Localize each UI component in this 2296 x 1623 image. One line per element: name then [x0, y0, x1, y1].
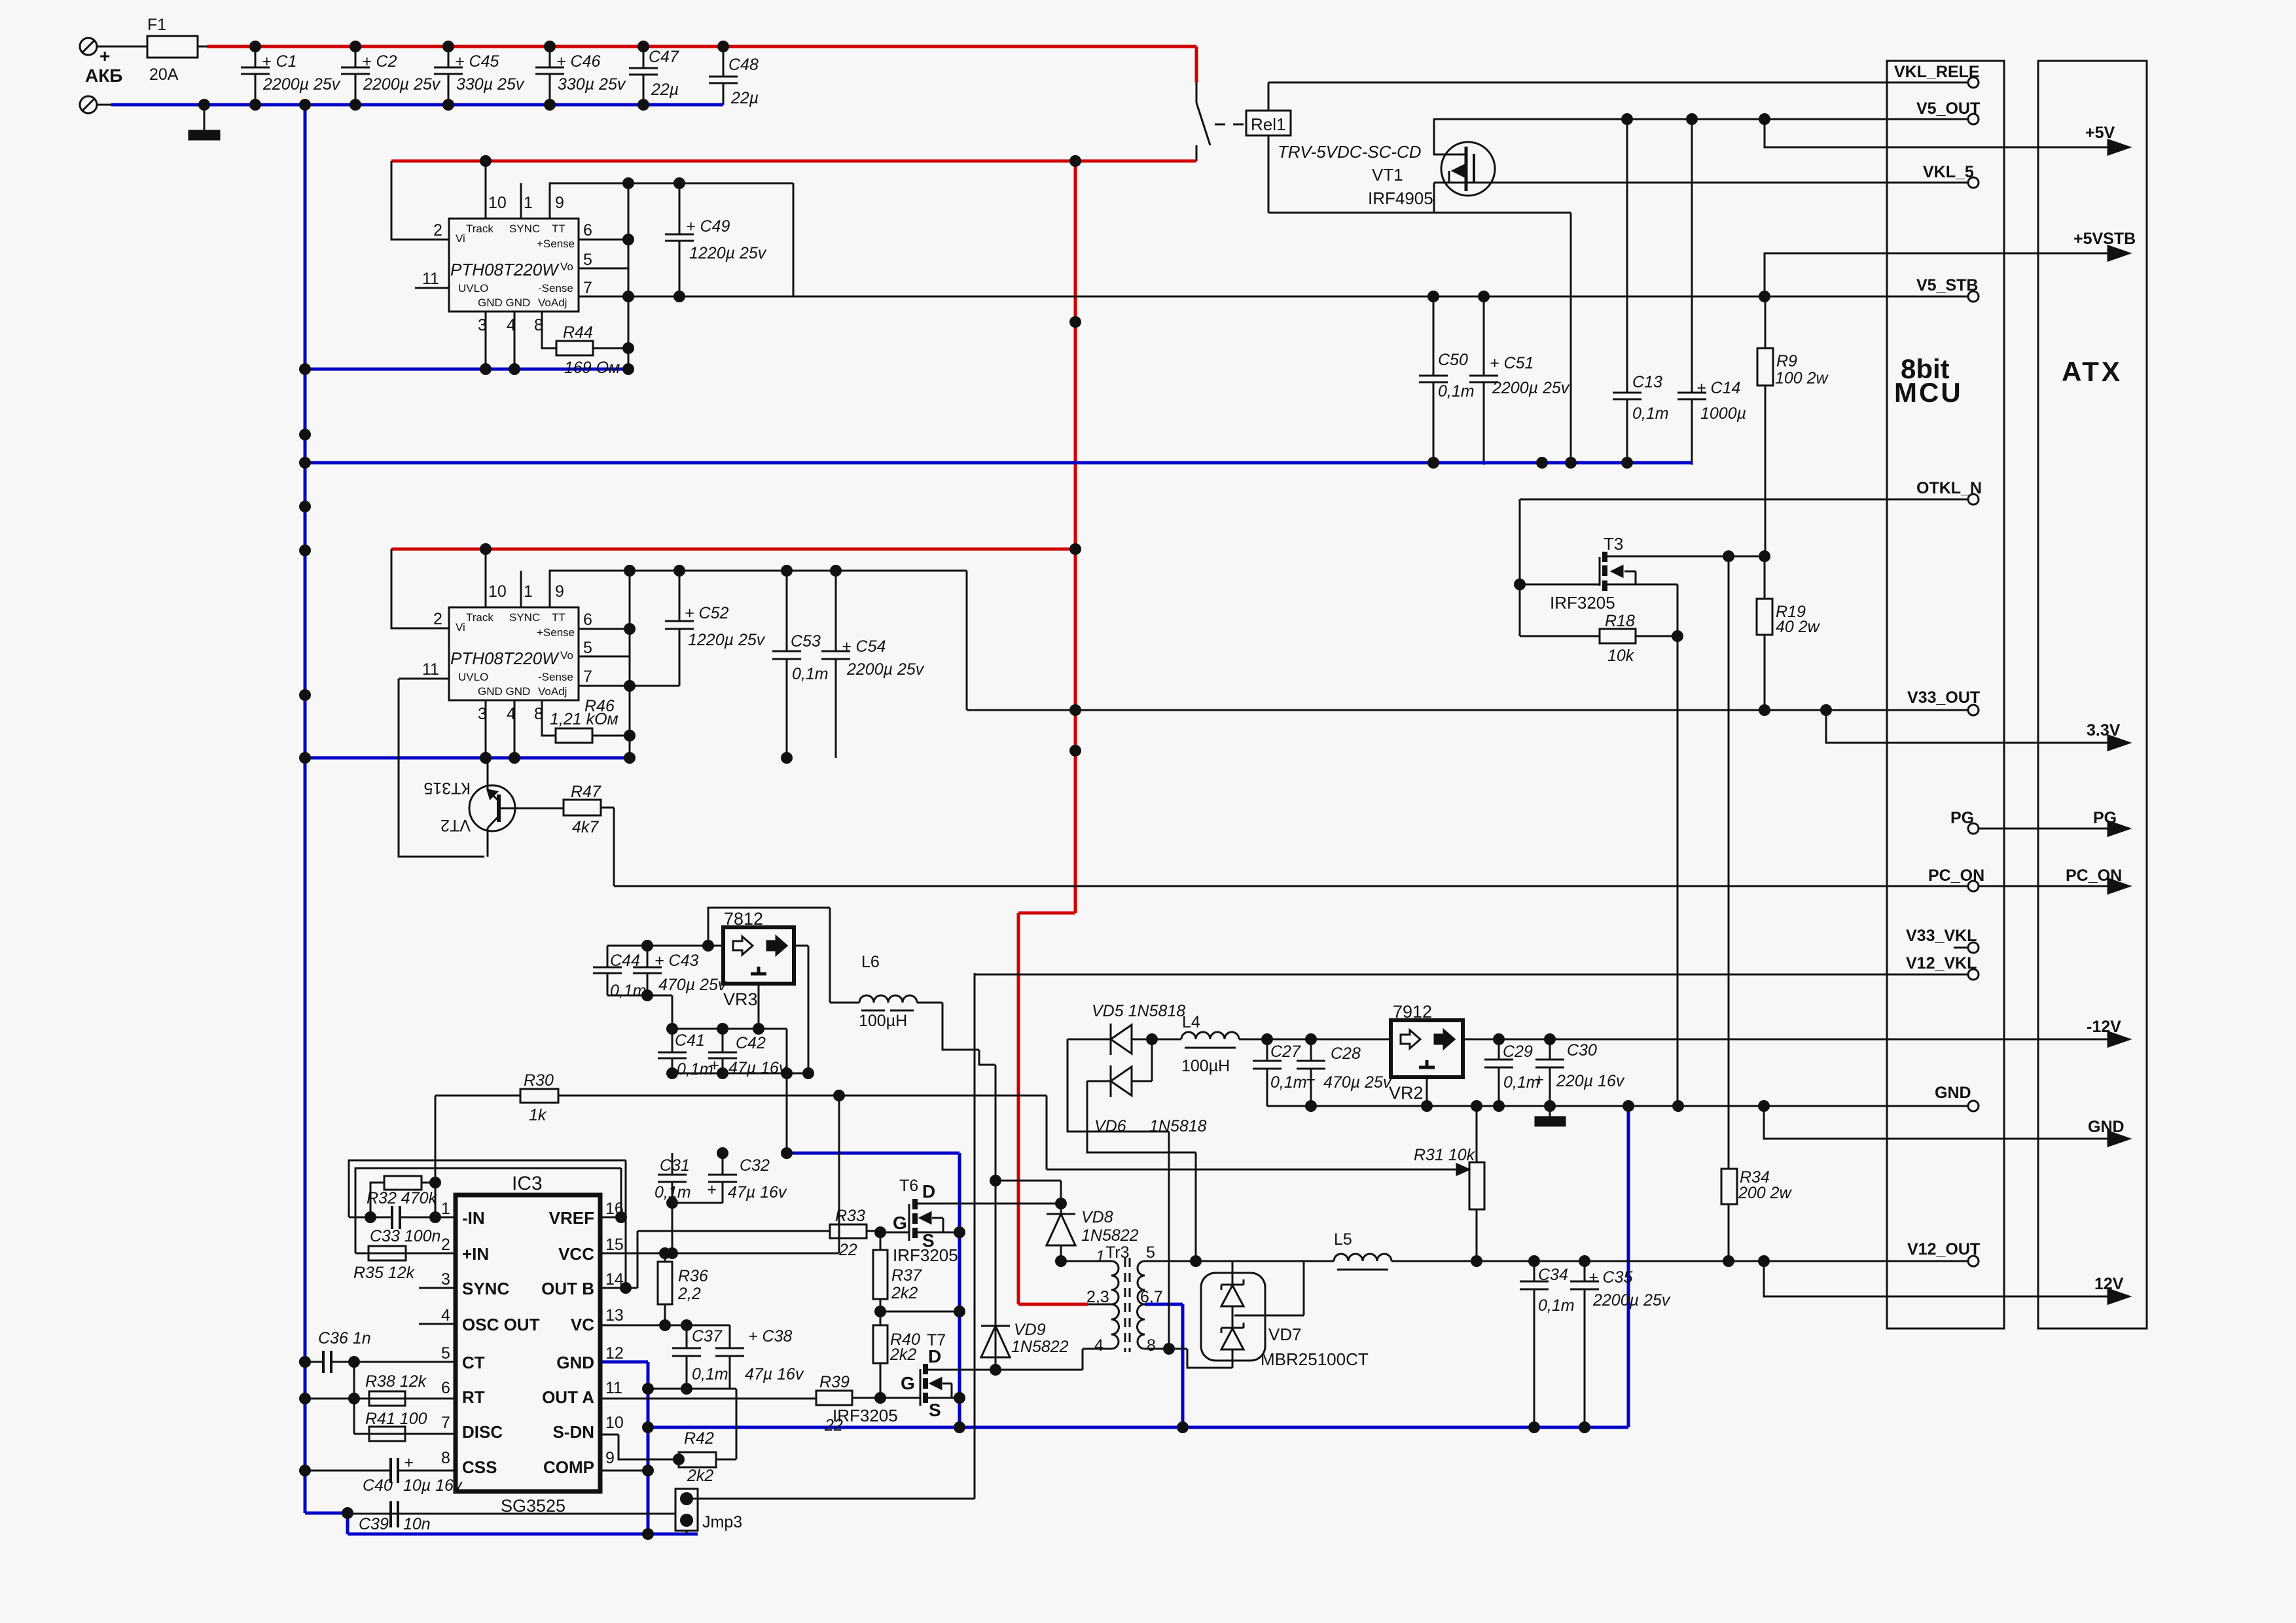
svg-text:V5_STB: V5_STB	[1916, 276, 1978, 294]
svg-text:3: 3	[441, 1270, 450, 1289]
resistor R44 left lead	[542, 312, 556, 348]
dots VT2 area	[480, 752, 492, 764]
resistor R41 body	[369, 1427, 405, 1441]
svg-text:47µ 16v: 47µ 16v	[745, 1365, 804, 1383]
dots VD8 Tr3	[990, 1175, 1001, 1186]
wire pin5 vo	[579, 656, 630, 658]
wire PC_ON line	[614, 885, 1969, 887]
svg-text:Vi: Vi	[456, 621, 465, 633]
svg-text:1: 1	[441, 1200, 450, 1218]
svg-text:R38 12k: R38 12k	[365, 1372, 427, 1391]
svg-text:9: 9	[555, 194, 564, 212]
pin circle OTKL_N	[1968, 494, 1979, 505]
diode VD5 triangle	[1111, 1025, 1132, 1054]
svg-text:1N5822: 1N5822	[1081, 1226, 1139, 1245]
wire C36 gap mask	[325, 1360, 330, 1364]
diode VD8 triangle	[1047, 1214, 1075, 1245]
transformer Tr3 primary winding	[1111, 1261, 1119, 1349]
wire VT1 drain to loop	[1433, 183, 1435, 213]
svg-text:3.3V: 3.3V	[2087, 721, 2121, 740]
svg-text:200 2w: 200 2w	[1738, 1184, 1793, 1202]
svg-text:C33 100n: C33 100n	[370, 1227, 440, 1245]
blue wire bottom ground bus	[648, 1426, 1628, 1429]
svg-text:R9: R9	[1776, 352, 1797, 370]
wire pin1 stub	[520, 571, 522, 607]
svg-text:R47: R47	[571, 783, 601, 801]
svg-text:7: 7	[441, 1414, 450, 1432]
wire R30 feedback drop	[1046, 1096, 1048, 1169]
wire L6 staircase	[942, 1003, 996, 1065]
VD7 diode2 cathode bar	[1221, 1323, 1244, 1333]
arrowhead -12V	[2108, 1032, 2129, 1046]
wire pin3 gnd	[485, 312, 487, 369]
red wire to Tr3 primary	[1018, 1303, 1088, 1306]
inductor L5 core line	[1337, 1269, 1388, 1271]
svg-text:АКБ: АКБ	[85, 65, 122, 86]
potentiometer R31 bottom lead	[1476, 1209, 1478, 1261]
VT1 body circle	[1441, 142, 1495, 196]
wire V12_VKL corner	[974, 973, 976, 1499]
potentiometer R31 wiper line	[1047, 1169, 1460, 1171]
svg-text:Vo: Vo	[560, 260, 573, 273]
capacitor C35 plates	[1570, 1281, 1599, 1289]
VT2 base lead	[499, 808, 564, 810]
svg-text:+ C43: + C43	[655, 952, 699, 970]
diode VD5 line	[1067, 1039, 1111, 1041]
svg-text:2: 2	[433, 221, 442, 240]
wire VR3 output	[794, 946, 808, 1073]
capacitor C13 plates	[1613, 393, 1641, 399]
capacitor C43 top lead	[647, 946, 649, 967]
wire pin6 sense	[579, 628, 630, 630]
resistor R39 body	[816, 1391, 852, 1405]
blue wire C32 drop	[958, 1153, 961, 1427]
svg-text:VD8: VD8	[1081, 1208, 1113, 1226]
svg-text:0,1m: 0,1m	[610, 982, 647, 1000]
svg-text:8: 8	[1147, 1336, 1156, 1355]
wire Tr3 pin1	[1061, 1260, 1111, 1262]
svg-text:+ C14: + C14	[1696, 379, 1740, 397]
wire VD8 top link	[996, 1180, 1061, 1182]
capacitor C29 top lead	[1498, 1039, 1500, 1060]
VT2 base bar	[497, 794, 501, 822]
svg-text:2k2: 2k2	[891, 1284, 918, 1302]
wire R30 left lead	[435, 1096, 520, 1183]
wire sense tie vertical	[628, 183, 630, 369]
wire C33 plate gap mask	[393, 1215, 399, 1219]
capacitor C37 top lead	[686, 1325, 688, 1348]
T3 body diode arrow	[1624, 571, 1636, 584]
wire inner loop +IN to VREF	[355, 1168, 621, 1253]
VT2 emitter lead	[487, 828, 489, 857]
capacitor C40 plates	[391, 1458, 398, 1483]
wire VD7 output	[1234, 1261, 1304, 1315]
svg-text:CSS: CSS	[462, 1457, 497, 1477]
svg-text:Jmp3: Jmp3	[702, 1513, 742, 1531]
svg-text:14: 14	[605, 1270, 624, 1289]
capacitor C13 leads	[1626, 119, 1628, 465]
VT2 emitter arrowhead	[488, 790, 497, 798]
svg-text:MCU: MCU	[1894, 377, 1963, 408]
wire minus12V output line	[1463, 1039, 2119, 1041]
capacitor C45 leads	[448, 46, 450, 105]
wire L4 to VR2	[1239, 1039, 1391, 1041]
resistor R9 bottom lead	[1765, 385, 1767, 556]
wire pin11 stub	[415, 287, 449, 289]
svg-text:12: 12	[605, 1344, 624, 1363]
capacitor C42 plates	[708, 1052, 737, 1058]
svg-text:9: 9	[555, 582, 564, 601]
module U1 box	[449, 219, 579, 312]
wire bypass down to L6	[829, 908, 831, 1003]
svg-text:330µ 25v: 330µ 25v	[558, 75, 626, 94]
svg-text:+IN: +IN	[462, 1244, 489, 1264]
relay switch lower stub	[1196, 145, 1198, 161]
wire C40 gap mask	[392, 1469, 397, 1472]
svg-text:4: 4	[1094, 1336, 1103, 1355]
resistor R40 top lead	[880, 1311, 882, 1325]
svg-text:C34: C34	[1538, 1266, 1568, 1284]
capacitor C53 plates	[772, 651, 801, 659]
blue wire gnd riser	[1627, 1106, 1630, 1427]
wire V12_VKL line	[975, 974, 1969, 976]
pin circle PC_ON	[1968, 881, 1979, 891]
blue wire module1 ground	[305, 368, 630, 371]
svg-text:7912: 7912	[1393, 1002, 1432, 1022]
svg-text:C50: C50	[1438, 351, 1468, 369]
capacitor C30 plates	[1535, 1060, 1564, 1067]
wire pin9 drop	[793, 183, 795, 296]
relay switch upper stub	[1196, 82, 1198, 103]
red battery rail	[207, 46, 1196, 1304]
svg-text:+ C1: + C1	[262, 52, 297, 71]
svg-text:2: 2	[433, 610, 442, 628]
svg-text:16: 16	[605, 1200, 624, 1218]
wire minus terminal to blue rail	[97, 104, 111, 106]
svg-text:12V: 12V	[2094, 1275, 2124, 1293]
resistor R33 body	[830, 1224, 867, 1238]
wire pin10 SDN jog	[600, 1435, 679, 1459]
svg-text:CT: CT	[462, 1353, 485, 1372]
wire Tr3 pin8	[1145, 1348, 1169, 1350]
svg-text:OTKL_N: OTKL_N	[1916, 479, 1982, 497]
red wire relay drop	[1195, 46, 1198, 82]
wire R32 right lead	[422, 1183, 435, 1217]
wire pin6 sense	[579, 239, 628, 241]
svg-text:0,1m: 0,1m	[677, 1060, 713, 1079]
capacitor C54 leads	[835, 571, 837, 758]
wire pin4 gnd	[514, 700, 516, 758]
pin circle VKL_5	[1968, 177, 1979, 188]
svg-text:2: 2	[441, 1236, 450, 1254]
diode VD5 out lead	[1132, 1039, 1181, 1041]
capacitor C46 leads	[549, 46, 551, 105]
svg-text:G: G	[901, 1373, 915, 1393]
capacitor C2 plates	[341, 67, 370, 74]
capacitor C42 top lead	[722, 1029, 724, 1052]
svg-text:+5VSTB: +5VSTB	[2073, 230, 2136, 248]
resistor R34 body	[1721, 1169, 1737, 1204]
VD7 diode1 cathode bar	[1221, 1279, 1244, 1290]
capacitor C52 plates	[665, 621, 694, 629]
capacitor C42 bottom lead	[722, 1058, 724, 1073]
wire pin1 -IN line	[349, 1217, 456, 1219]
wire V12 output line	[1391, 1260, 1969, 1262]
pin circle V5_OUT	[1968, 114, 1979, 124]
wire OUTB riser to R33	[637, 1231, 639, 1288]
svg-text:8: 8	[534, 705, 543, 723]
dots Jmp3 pins	[680, 1492, 693, 1505]
T3 channel bars	[1602, 552, 1607, 591]
wire gnd drop to blue	[786, 1029, 788, 1153]
svg-text:R41 100: R41 100	[365, 1410, 427, 1428]
svg-text:IRF3205: IRF3205	[1550, 593, 1615, 613]
capacitor C34 plates	[1520, 1281, 1549, 1289]
svg-text:1: 1	[1096, 1247, 1105, 1266]
svg-text:+ C49: + C49	[686, 217, 730, 236]
wire analog gnd rail	[1267, 1105, 1969, 1107]
svg-text:4: 4	[441, 1306, 450, 1325]
wire sense tie vertical	[629, 571, 631, 758]
svg-text:TRV-5VDC-SC-CD: TRV-5VDC-SC-CD	[1278, 142, 1422, 162]
svg-text:330µ 25v: 330µ 25v	[456, 75, 525, 94]
wire Tr3 pin4 jog	[1083, 1349, 1111, 1370]
dots V12 line	[1471, 1255, 1482, 1267]
svg-text:1220µ 25v: 1220µ 25v	[689, 244, 767, 262]
svg-text:T6: T6	[899, 1177, 918, 1195]
svg-text:11: 11	[422, 270, 439, 288]
svg-text:V5_OUT: V5_OUT	[1916, 99, 1980, 118]
diode VD7 package outline	[1201, 1273, 1265, 1361]
svg-text:2200µ 25v: 2200µ 25v	[846, 660, 925, 679]
wire VKL_RELE	[1268, 82, 1969, 84]
red wire module2 feed	[391, 548, 1075, 551]
svg-text:GND GND: GND GND	[478, 685, 530, 698]
wire OTKL_N line	[1520, 499, 1969, 501]
svg-text:C53: C53	[791, 632, 821, 651]
dots VR3 area	[641, 940, 653, 952]
dots IC3 right network	[659, 1247, 671, 1259]
wire outer loop -IN to OUTB	[349, 1160, 626, 1288]
svg-text:5: 5	[441, 1344, 450, 1363]
svg-text:5: 5	[1146, 1243, 1155, 1262]
capacitor C54 plates	[821, 651, 850, 659]
pin circle V12_VKL	[1968, 969, 1979, 980]
svg-text:20A: 20A	[149, 65, 179, 84]
svg-text:0,1m: 0,1m	[692, 1365, 728, 1383]
resistor R40 bottom lead	[880, 1363, 882, 1398]
resistor R19 body	[1757, 599, 1772, 635]
resistor R44 right lead	[593, 348, 628, 349]
blue wire IC3 gnd vertical	[647, 1362, 650, 1534]
capacitor C32 plates	[708, 1175, 737, 1182]
resistor R35 body	[368, 1246, 406, 1260]
arrowhead +5V	[2108, 140, 2129, 154]
svg-text:2200µ 25v: 2200µ 25v	[1592, 1291, 1671, 1310]
VD7 mid link	[1232, 1306, 1234, 1329]
svg-text:+Sense: +Sense	[537, 238, 575, 250]
wire C39 gap mask	[392, 1512, 397, 1516]
capacitor C35 top lead	[1584, 1261, 1586, 1281]
wire pin9 COMP line	[600, 1470, 648, 1472]
capacitor C32 bottom lead	[722, 1182, 724, 1203]
wire V33_VKL stub	[1954, 947, 1968, 949]
capacitor C49 plates	[665, 234, 694, 241]
svg-text:9: 9	[605, 1449, 615, 1467]
svg-text:D: D	[928, 1346, 941, 1366]
resistor R18 right lead	[1636, 635, 1677, 637]
capacitor C37 plates	[672, 1348, 701, 1356]
wire pin15 VCC line	[600, 1253, 839, 1255]
svg-text:Tr3: Tr3	[1105, 1243, 1130, 1262]
capacitor C48 leads	[723, 46, 725, 105]
dots module1 sense net	[622, 177, 634, 189]
svg-text:GND: GND	[1935, 1084, 1971, 1102]
capacitor C47 leads	[643, 46, 645, 105]
capacitor C49 leads	[679, 183, 681, 296]
inductor L6 coil	[830, 995, 942, 1003]
capacitor C35 bottom lead	[1584, 1289, 1586, 1427]
T7 body arrowhead	[931, 1378, 941, 1389]
capacitor C45 plates	[434, 67, 463, 74]
svg-text:470µ 25v: 470µ 25v	[658, 976, 727, 994]
svg-text:-12V: -12V	[2087, 1018, 2121, 1036]
T6 body arrowhead	[920, 1213, 931, 1223]
capacitor C34 bottom lead	[1534, 1289, 1535, 1427]
resistor R34 bottom lead	[1728, 1204, 1730, 1261]
module U2 box	[449, 607, 579, 700]
capacitor C1 plates	[241, 67, 270, 74]
svg-text:PTH08T220W: PTH08T220W	[450, 260, 560, 279]
diode VD8 cathode bar	[1047, 1213, 1075, 1215]
Jmp3 box	[675, 1489, 698, 1531]
potentiometer R31 top lead	[1476, 1106, 1478, 1162]
red wire lower vertical	[1017, 913, 1020, 1304]
dot R30 vcc branch	[833, 1090, 845, 1101]
capacitor C32 top lead	[722, 1153, 724, 1175]
capacitor C43 plates	[633, 967, 662, 973]
svg-text:S-DN: S-DN	[552, 1422, 594, 1442]
dots left blue vertical	[299, 429, 311, 440]
resistor R18 body	[1600, 629, 1636, 643]
arrowhead PG	[2108, 821, 2129, 836]
svg-text:+ C51: + C51	[1490, 354, 1534, 372]
svg-text:100 2w: 100 2w	[1775, 369, 1829, 387]
resistor R46 right lead	[592, 735, 630, 737]
VD7 top anode lead	[1232, 1261, 1234, 1287]
svg-text:+: +	[1534, 1071, 1544, 1089]
VT1 gate return	[1448, 171, 1450, 183]
svg-text:R33: R33	[835, 1207, 865, 1225]
svg-text:R31 10k: R31 10k	[1414, 1146, 1476, 1164]
VR2 gnd lead	[1426, 1077, 1428, 1106]
svg-text:3: 3	[478, 316, 487, 334]
svg-text:2200µ 25v: 2200µ 25v	[363, 75, 441, 94]
wire pin7 v5 output line	[579, 296, 1969, 298]
svg-text:PTH08T220W: PTH08T220W	[450, 649, 560, 668]
VT2 collector diagonal	[488, 790, 499, 801]
fuse F1 body	[147, 36, 198, 58]
svg-text:R44: R44	[563, 323, 593, 342]
wire pin3 gnd	[485, 700, 487, 758]
dots V5 line caps	[1427, 291, 1439, 302]
svg-text:ATX: ATX	[2062, 356, 2123, 387]
capacitor C41 top lead	[672, 1029, 673, 1052]
svg-text:C30: C30	[1567, 1041, 1597, 1060]
regulator VR3 box	[723, 927, 794, 984]
svg-text:R18: R18	[1605, 612, 1635, 630]
svg-text:10: 10	[605, 1414, 624, 1432]
svg-text:10: 10	[488, 582, 507, 601]
resistor R44 body	[556, 341, 593, 355]
svg-text:D: D	[922, 1181, 935, 1202]
resistor R9 body	[1757, 348, 1773, 385]
wire Tr3 pin5 to L5	[1145, 1260, 1334, 1262]
svg-text:VKL_5: VKL_5	[1923, 163, 1974, 181]
svg-text:R30: R30	[524, 1071, 554, 1090]
wire plus5VSTB branch	[1765, 253, 2119, 296]
svg-text:R39: R39	[819, 1373, 850, 1391]
wire VR3 bypass top	[708, 908, 830, 946]
capacitor C47 plates	[629, 68, 658, 75]
wire VT1 loop to blue rail	[1570, 213, 1572, 465]
T6 body diode return	[932, 1218, 943, 1232]
capacitor C28 top lead	[1310, 1039, 1312, 1061]
inductor L6 core lines	[861, 1010, 914, 1012]
wire VT1 source drop	[1434, 118, 1465, 154]
svg-text:VT1: VT1	[1372, 165, 1403, 185]
T6 channel bars	[912, 1199, 918, 1238]
ground bar	[189, 131, 219, 139]
regulator VR2 box	[1391, 1020, 1463, 1077]
VD7 diode1 triangle	[1221, 1285, 1244, 1306]
svg-text:VCC: VCC	[558, 1244, 594, 1264]
svg-text:100µH: 100µH	[1181, 1057, 1230, 1075]
arrowhead +5VSTB	[2108, 246, 2129, 260]
wire T3 gate	[1520, 584, 1600, 586]
wire C41 C42 bottom line	[672, 1073, 808, 1075]
Rel1 coil wire down	[1268, 135, 1270, 213]
relay dashed control link	[1215, 124, 1246, 126]
svg-text:Track: Track	[466, 223, 493, 235]
svg-text:C47: C47	[649, 48, 679, 66]
wire snubber column	[995, 1065, 997, 1370]
diode VD6 out lead	[1132, 1080, 1152, 1082]
svg-text:OUT A: OUT A	[542, 1387, 594, 1407]
dots -12V rectifier	[1146, 1033, 1158, 1045]
svg-text:+ C46: + C46	[556, 52, 601, 71]
wire VD5 anode loop	[1067, 1039, 1169, 1132]
svg-text:VT2: VT2	[440, 816, 471, 834]
svg-text:S: S	[929, 1400, 941, 1420]
svg-text:1k: 1k	[529, 1106, 547, 1124]
svg-text:VD6: VD6	[1094, 1117, 1126, 1135]
capacitor C29 bottom lead	[1498, 1067, 1500, 1106]
svg-text:+: +	[1306, 1071, 1316, 1089]
svg-text:1: 1	[524, 194, 533, 212]
svg-text:15: 15	[605, 1236, 624, 1254]
capacitor C52 leads	[679, 571, 681, 686]
VT1 channel bar	[1473, 154, 1475, 183]
capacitor C50 plates	[1419, 376, 1448, 382]
svg-text:2200µ 25v: 2200µ 25v	[1492, 379, 1570, 397]
svg-text:F1: F1	[147, 16, 166, 34]
wire R47 to PC_ON	[601, 808, 614, 886]
dots IC3 input network	[365, 1211, 376, 1223]
wire v33 output line	[967, 709, 1969, 711]
svg-text:-IN: -IN	[462, 1208, 485, 1228]
dots module2 gnd	[480, 752, 492, 764]
